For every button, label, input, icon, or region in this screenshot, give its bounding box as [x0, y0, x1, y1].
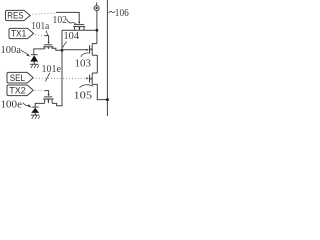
svg-text:SEL: SEL	[10, 73, 25, 83]
transistor 101a source tick	[44, 47, 46, 49]
svg-text:101e: 101e	[42, 64, 62, 75]
node TX2 input tag	[7, 85, 33, 96]
wire TX1 to gate of 101a	[44, 36, 48, 42]
wire TX2 to gate of 101e	[44, 91, 48, 95]
leader 106 tilde	[109, 11, 115, 13]
arrow RES into gate	[78, 22, 80, 25]
wire 105 source to output line	[92, 84, 107, 99]
transistor 105 channel bar	[91, 73, 93, 85]
svg-text:102: 102	[53, 15, 68, 26]
wire 101e left to photodiode	[35, 103, 45, 107]
wire VDD down to SF drain	[96, 11, 98, 44]
svg-text:100e: 100e	[1, 99, 23, 110]
svg-text:100a: 100a	[1, 45, 22, 56]
wire 103 source down to 105	[92, 55, 97, 73]
ground 100e	[31, 114, 40, 116]
node junction VDD/reset	[96, 29, 99, 32]
transistor 101a channel bar	[43, 46, 54, 48]
wire vertical signal line 106	[106, 0, 108, 116]
transistor 102 reset: gate bar	[74, 24, 84, 26]
wire TX2 dotted	[35, 89, 44, 91]
leader 100a arrow	[21, 50, 27, 54]
leader 105	[80, 85, 94, 88]
wire 101a left to photodiode	[34, 49, 45, 55]
ground 100a	[30, 63, 39, 65]
node RES input tag	[6, 10, 31, 20]
transistor 102 bulk tick with arrow	[78, 27, 80, 30]
wire RES line to gate of 102	[56, 12, 79, 22]
node FD vertical line 104	[52, 30, 62, 105]
transistor 101e bulk tick with arrow	[47, 99, 49, 103]
transistor 101e source tick	[44, 99, 46, 103]
transistor 103 channel bar	[91, 43, 93, 55]
arrow SEL into gate	[86, 77, 88, 79]
svg-text:105: 105	[74, 91, 93, 102]
transistor 101e transfer: gate bar	[44, 96, 52, 98]
transistor 101a transfer: gate bar	[44, 44, 52, 46]
node SEL input tag	[7, 72, 33, 83]
transistor 103 source follower: gate bar	[89, 45, 91, 53]
svg-text:104: 104	[64, 31, 80, 42]
photodiode 100e	[32, 106, 39, 108]
node FD junction dot	[61, 49, 64, 52]
svg-text:103: 103	[75, 59, 92, 70]
wire SEL dotted to gate of 105	[36, 77, 86, 79]
arrow TX1 into gate	[48, 42, 50, 44]
wire 102 bottom rail FD to VDD	[62, 29, 97, 31]
transistor 105 bulk arrow	[90, 77, 92, 80]
transistor 101e drain tick	[51, 99, 53, 103]
arrow TX2 into gate	[48, 94, 50, 96]
wire FD to gate of SF 103	[62, 49, 87, 51]
svg-text:RES: RES	[7, 11, 23, 21]
transistor 101a drain tick	[51, 47, 53, 49]
svg-text:TX2: TX2	[9, 86, 25, 96]
leader 101e	[45, 73, 49, 82]
transistor 105 select: gate bar	[89, 75, 91, 83]
leader 100e squiggle arrow	[23, 103, 29, 106]
transistor 101e channel bar	[43, 98, 54, 100]
transistor 102 source tick	[74, 27, 76, 30]
svg-text:TX1: TX1	[11, 29, 26, 39]
transistor 101a bulk tick with arrow	[47, 47, 49, 49]
wire 105 drain	[92, 72, 97, 74]
svg-text:106: 106	[115, 8, 129, 19]
transistor 103 bulk arrow	[90, 48, 92, 51]
leader 101a	[46, 31, 47, 36]
leader 104	[63, 42, 67, 48]
leader 102 squiggle	[67, 19, 77, 24]
node junction on line 106	[106, 98, 109, 101]
transistor 102 channel bar	[73, 26, 85, 28]
transistor 102 drain tick	[83, 27, 85, 30]
photodiode 100a	[31, 54, 38, 56]
wire TX1 dotted	[35, 34, 44, 37]
power supply terminal	[96, 3, 98, 6]
wire 101a right to FD	[52, 48, 62, 50]
node TX1 input tag	[9, 28, 34, 38]
svg-text:101a: 101a	[31, 21, 49, 32]
leader 103	[81, 53, 89, 57]
wire RES dotted control line	[33, 13, 57, 14]
wire 103 drain to VDD	[92, 43, 97, 45]
